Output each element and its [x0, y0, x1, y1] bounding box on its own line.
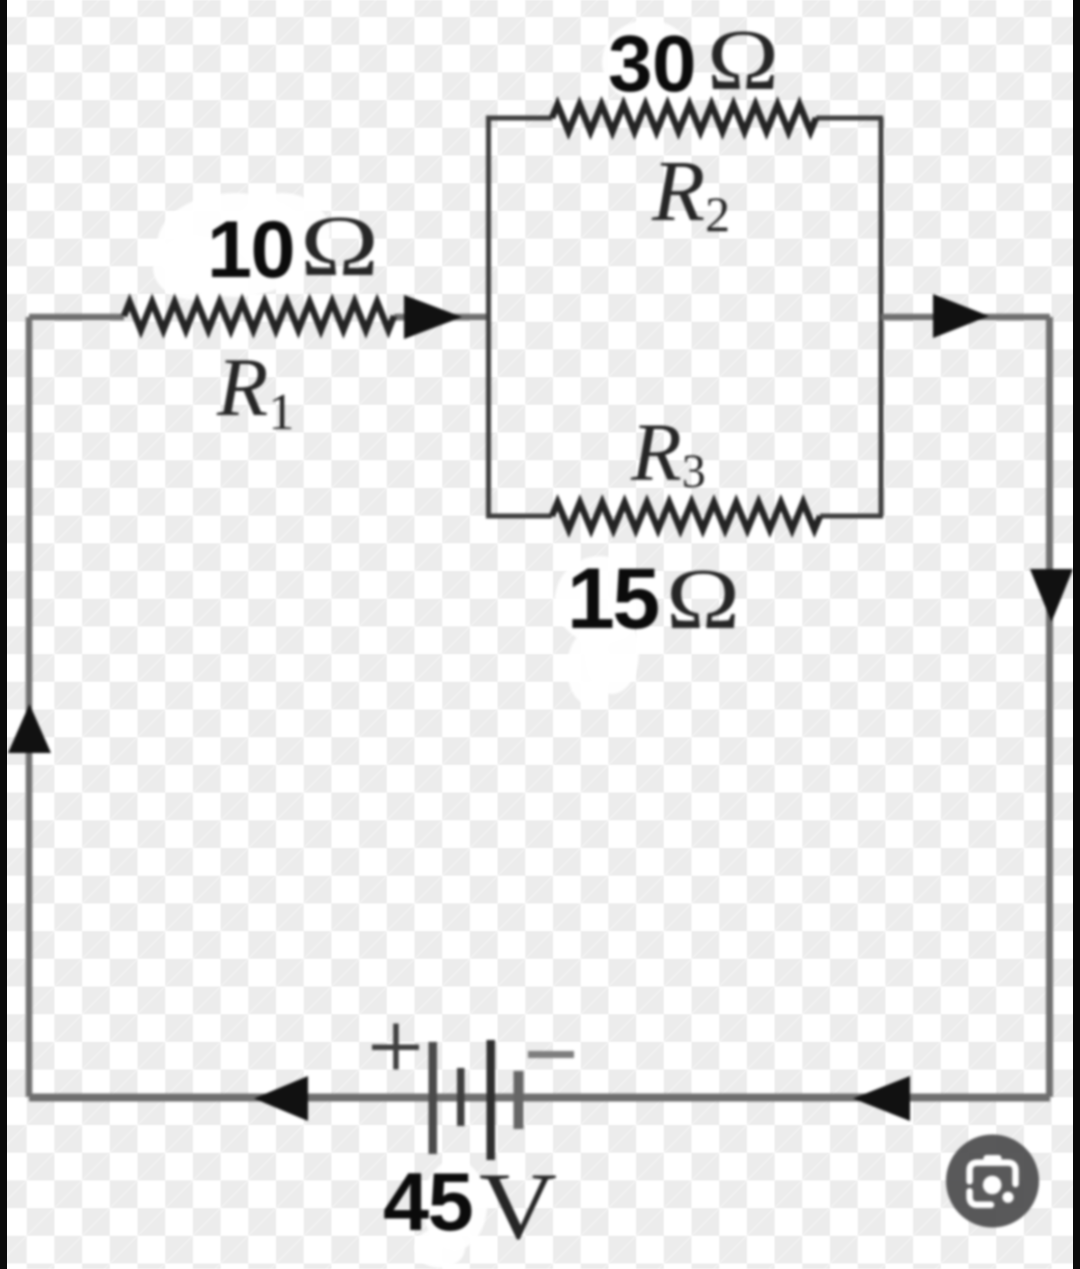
- parallel box right side: [879, 118, 884, 516]
- arrow bottom right pointing left: [853, 1076, 910, 1121]
- arrow bottom left pointing left: [254, 1076, 308, 1121]
- svg-text:10: 10: [207, 205, 294, 295]
- battery minus sign: [528, 1051, 574, 1058]
- svg-text:R3: R3: [630, 406, 706, 498]
- svg-text:Ω: Ω: [666, 550, 740, 647]
- arrow up left wire: [8, 704, 51, 753]
- svg-text:30: 30: [608, 19, 696, 108]
- right edge black strip: [1073, 0, 1080, 1269]
- left edge black strip: [0, 0, 7, 1269]
- parallel box bottom side: [486, 514, 883, 519]
- wire right vertical: [1046, 317, 1053, 1097]
- wire top-left horizontal: [29, 314, 488, 321]
- wire exit horizontal: [881, 314, 1050, 321]
- svg-text:Ω: Ω: [300, 197, 379, 294]
- svg-text:V: V: [479, 1153, 557, 1259]
- svg-text:R1: R1: [216, 341, 294, 441]
- wire left vertical: [26, 317, 33, 1097]
- wire bottom horizontal: [29, 1094, 1050, 1102]
- resistor R3: [552, 503, 820, 530]
- parallel box left side: [486, 118, 491, 516]
- parallel box top side: [486, 116, 883, 121]
- camera lens icon: [946, 1135, 1039, 1228]
- arrow down right wire: [1030, 569, 1073, 622]
- battery plate long right: [487, 1040, 496, 1160]
- resistor R1: [124, 302, 394, 330]
- svg-text:45: 45: [383, 1155, 472, 1248]
- resistor R2: [552, 105, 816, 132]
- battery plate short right: [514, 1071, 524, 1129]
- battery plus sign: [372, 1024, 419, 1070]
- svg-text:Ω: Ω: [707, 11, 779, 108]
- battery plate long left: [429, 1042, 438, 1154]
- arrow after box: [933, 294, 989, 338]
- battery plate short left: [457, 1068, 465, 1126]
- arrow after R1: [404, 295, 462, 339]
- svg-text:15: 15: [567, 551, 658, 647]
- svg-text:R2: R2: [651, 142, 730, 242]
